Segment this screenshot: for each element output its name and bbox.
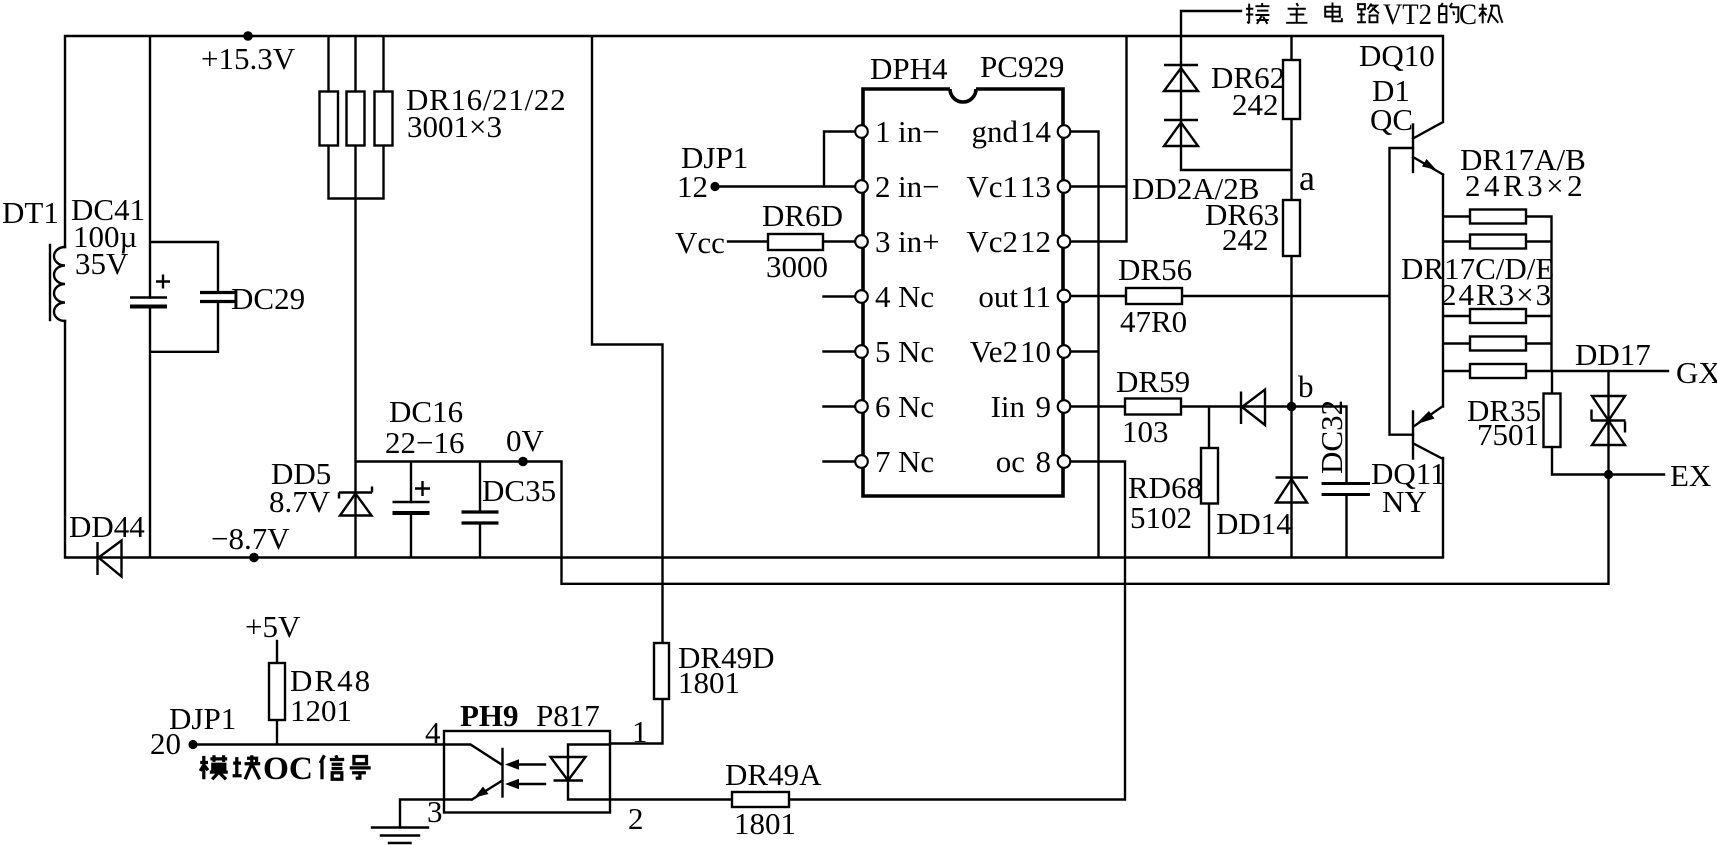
svg-text:C: C: [1459, 0, 1477, 31]
svg-text:11: 11: [1021, 279, 1051, 314]
svg-text:1801: 1801: [734, 806, 796, 841]
svg-text:12: 12: [1020, 224, 1051, 259]
svg-text:DC16: DC16: [389, 394, 463, 429]
svg-text:103: 103: [1122, 414, 1169, 449]
svg-text:NY: NY: [1382, 484, 1427, 519]
svg-text:DPH4: DPH4: [870, 51, 948, 86]
svg-text:8.7V: 8.7V: [269, 484, 331, 519]
svg-text:−8.7V: −8.7V: [211, 521, 290, 556]
svg-text:Vc2: Vc2: [966, 224, 1018, 259]
svg-text:+15.3V: +15.3V: [201, 41, 296, 76]
svg-text:242: 242: [1222, 222, 1269, 257]
svg-text:GX: GX: [1676, 355, 1717, 390]
svg-text:9: 9: [1036, 389, 1052, 424]
svg-text:a: a: [1299, 158, 1315, 198]
svg-text:22−16: 22−16: [385, 425, 464, 460]
svg-text:2: 2: [628, 801, 644, 836]
svg-text:DT1: DT1: [2, 195, 59, 230]
svg-text:24R3×2: 24R3×2: [1465, 168, 1586, 203]
svg-text:Iin: Iin: [991, 389, 1026, 424]
svg-text:VT2: VT2: [1383, 0, 1432, 31]
svg-text:DD44: DD44: [69, 509, 145, 544]
svg-text:Vc1: Vc1: [966, 169, 1018, 204]
svg-text:Nc: Nc: [898, 444, 934, 479]
svg-text:+5V: +5V: [245, 609, 301, 644]
svg-text:13: 13: [1020, 169, 1051, 204]
svg-text:8: 8: [1036, 444, 1052, 479]
svg-text:12: 12: [677, 169, 708, 204]
svg-text:Nc: Nc: [898, 334, 934, 369]
svg-text:b: b: [1298, 369, 1314, 404]
svg-text:0V: 0V: [506, 423, 545, 458]
svg-text:242: 242: [1232, 87, 1279, 122]
svg-text:DD17: DD17: [1575, 337, 1651, 372]
svg-text:DC35: DC35: [482, 473, 556, 508]
svg-text:35V: 35V: [75, 246, 129, 281]
svg-text:DR6D: DR6D: [762, 198, 843, 233]
svg-text:DC32: DC32: [1314, 400, 1349, 474]
svg-text:DR59: DR59: [1116, 364, 1190, 399]
svg-text:47R0: 47R0: [1120, 304, 1187, 339]
svg-text:oc: oc: [996, 444, 1025, 479]
svg-text:10: 10: [1020, 334, 1051, 369]
svg-text:PH9: PH9: [460, 698, 519, 733]
svg-text:7501: 7501: [1477, 417, 1539, 452]
svg-text:Vcc: Vcc: [675, 225, 725, 260]
svg-text:4: 4: [425, 715, 441, 750]
svg-text:1201: 1201: [290, 693, 352, 728]
svg-text:6: 6: [875, 389, 891, 424]
svg-text:1801: 1801: [678, 665, 740, 700]
svg-text:gnd: gnd: [972, 114, 1019, 149]
svg-text:14: 14: [1020, 114, 1052, 149]
svg-text:5: 5: [875, 334, 891, 369]
svg-text:24R3×3: 24R3×3: [1441, 277, 1553, 312]
svg-text:DQ10: DQ10: [1359, 38, 1435, 73]
svg-text:EX: EX: [1670, 458, 1711, 493]
svg-text:QC: QC: [1370, 102, 1413, 137]
svg-text:in+: in+: [898, 224, 940, 259]
svg-text:3000: 3000: [766, 249, 828, 284]
svg-text:in−: in−: [898, 114, 940, 149]
svg-text:5102: 5102: [1130, 500, 1192, 535]
svg-text:Nc: Nc: [898, 389, 934, 424]
svg-text:20: 20: [150, 726, 181, 761]
svg-text:3: 3: [427, 794, 443, 829]
svg-text:1: 1: [632, 714, 648, 749]
svg-text:3: 3: [875, 224, 891, 259]
svg-text:OC: OC: [263, 751, 313, 787]
svg-text:DC29: DC29: [231, 281, 305, 316]
svg-text:P817: P817: [536, 698, 600, 733]
svg-text:DR49A: DR49A: [725, 757, 822, 792]
svg-text:Nc: Nc: [898, 279, 934, 314]
svg-text:in−: in−: [898, 169, 940, 204]
svg-text:PC929: PC929: [980, 49, 1064, 84]
svg-text:7: 7: [875, 444, 891, 479]
svg-text:2: 2: [875, 169, 891, 204]
svg-text:out: out: [978, 279, 1018, 314]
svg-text:4: 4: [875, 279, 891, 314]
svg-text:1: 1: [875, 114, 891, 149]
svg-text:DD14: DD14: [1216, 506, 1292, 541]
svg-text:DR56: DR56: [1118, 252, 1192, 287]
svg-text:Ve2: Ve2: [970, 334, 1018, 369]
svg-text:3001×3: 3001×3: [407, 109, 502, 144]
